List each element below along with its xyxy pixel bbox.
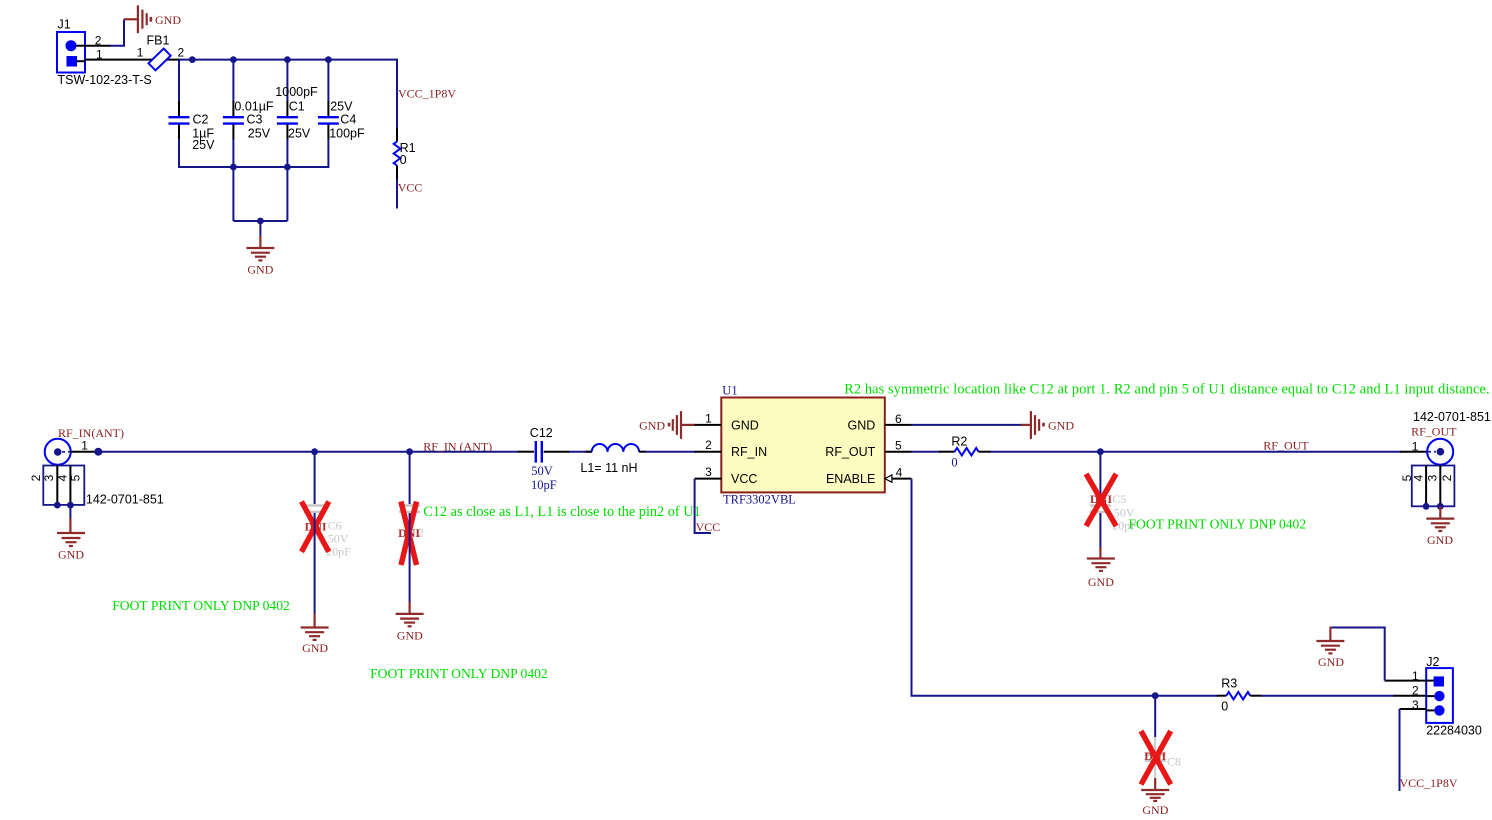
note: R2 placement (green) <box>844 382 1490 398</box>
svg-text:C2: C2 <box>193 113 209 127</box>
svg-text:4: 4 <box>896 465 903 479</box>
wire U1 pin4 ENABLE down and right <box>912 479 1218 696</box>
svg-text:GND: GND <box>1427 533 1453 547</box>
ground (earth) below C8 <box>1141 778 1169 817</box>
junction dot <box>54 502 61 509</box>
svg-text:50V: 50V <box>531 464 553 478</box>
junction dot <box>257 218 264 225</box>
wire C3 branch upper <box>232 60 234 102</box>
ground (earth) below RF_IN connector <box>57 518 85 561</box>
ground (earth) above J2 <box>1316 627 1344 669</box>
capacitor C3 <box>223 100 274 141</box>
junction dot <box>311 448 318 455</box>
node RF_OUT (connector) <box>1411 425 1457 439</box>
svg-text:2: 2 <box>705 438 712 452</box>
wire junction to RF_OUT connector <box>1100 451 1401 453</box>
note: foot print only (green, left) <box>112 598 290 613</box>
svg-text:TSW-102-23-T-S: TSW-102-23-T-S <box>58 73 152 87</box>
svg-text:U1: U1 <box>722 384 737 398</box>
resistor R3 <box>1217 677 1262 714</box>
coax connector RF_OUT <box>1427 439 1453 465</box>
svg-text:L1= 11 nH: L1= 11 nH <box>580 461 637 475</box>
capacitor DNP (greyed, near C12) <box>399 506 424 540</box>
svg-text:C3: C3 <box>247 113 263 127</box>
svg-text:C1: C1 <box>289 100 305 114</box>
svg-text:RF_OUT: RF_OUT <box>825 445 875 459</box>
capacitor C8 (DNP, greyed) <box>1145 737 1181 779</box>
wire C?2 branch upper <box>409 452 411 504</box>
pin 2 lead of J1 <box>85 45 111 47</box>
wire U1 pin6 to GND <box>912 424 1022 426</box>
junction dot <box>284 56 291 63</box>
junction dot <box>284 164 291 171</box>
node VCC <box>398 181 423 195</box>
svg-text:C8: C8 <box>1167 754 1181 768</box>
power ground GND (top, sideways) <box>124 5 181 33</box>
node VCC at U1 pin3 <box>696 520 721 534</box>
junction dot <box>1097 448 1104 455</box>
pin numbers J2 <box>1412 669 1419 712</box>
junction dot <box>325 56 332 63</box>
U1 pin 2 <box>695 438 722 452</box>
svg-text:0: 0 <box>400 153 407 167</box>
wire C1 branch lower <box>286 139 288 221</box>
svg-text:GND: GND <box>58 547 84 561</box>
connector J2 <box>1426 655 1482 738</box>
svg-text:142-0701-851: 142-0701-851 <box>86 493 164 507</box>
svg-text:1: 1 <box>1412 439 1419 453</box>
svg-text:3: 3 <box>1426 474 1440 481</box>
capacitor C5 (DNP, greyed) <box>1090 492 1137 533</box>
svg-text:GND: GND <box>1142 803 1168 817</box>
svg-text:GND: GND <box>1318 655 1344 669</box>
svg-text:RF_OUT: RF_OUT <box>1263 438 1309 452</box>
svg-text:GND: GND <box>1048 419 1074 433</box>
node RF_OUT label <box>1263 438 1309 452</box>
junction dot <box>189 56 196 63</box>
svg-text:VCC: VCC <box>731 472 757 486</box>
ground (earth) below C?2 <box>396 602 424 643</box>
junction dot <box>1423 503 1430 510</box>
wire: RF input net <box>97 451 519 453</box>
wire: top power bus <box>179 59 397 61</box>
pin 1 number of J1 <box>96 48 103 62</box>
node VCC_1P8V (J2) <box>1400 776 1458 790</box>
ground (earth) below C5 <box>1087 547 1115 589</box>
svg-text:25V: 25V <box>330 100 353 114</box>
inductor L1 <box>580 444 646 475</box>
svg-text:2: 2 <box>29 474 43 481</box>
IC U1 TRF3302VBL <box>721 384 885 507</box>
svg-text:C6: C6 <box>328 518 342 532</box>
wire C5 branch lower <box>1099 513 1101 548</box>
pin 1 number <box>1412 439 1419 453</box>
power ground GND right of U1 (sideways) <box>1021 411 1075 439</box>
wire C4 branch lower <box>327 139 329 168</box>
svg-text:TRF3302VBL: TRF3302VBL <box>723 492 796 506</box>
svg-text:GND: GND <box>731 418 759 432</box>
part number 142-0701-851 <box>86 493 164 507</box>
node RF_IN(ANT) label <box>58 426 124 440</box>
svg-text:GND: GND <box>848 418 876 432</box>
pin 2 lead of J2 <box>1394 695 1427 697</box>
capacitor C6 (DNP, greyed) <box>304 506 351 559</box>
wire: lower gnd bus <box>233 220 287 222</box>
U1 pin 3 <box>695 465 722 479</box>
node RF_IN (ANT) label <box>423 440 492 454</box>
svg-text:0.01µF: 0.01µF <box>234 100 274 114</box>
svg-text:4: 4 <box>1412 474 1426 481</box>
wire J2 pin1 to GND <box>1330 628 1384 681</box>
wire stem to ground <box>259 221 261 237</box>
svg-text:FB1: FB1 <box>147 34 170 48</box>
svg-text:GND: GND <box>397 629 423 643</box>
svg-text:0: 0 <box>1221 700 1228 714</box>
wire C8 branch upper <box>1154 696 1156 738</box>
svg-text:RF_IN (ANT): RF_IN (ANT) <box>423 440 492 454</box>
svg-text:2: 2 <box>1440 474 1454 481</box>
pin 1 lead <box>71 451 99 453</box>
svg-text:VCC: VCC <box>398 181 423 195</box>
svg-text:C12 as close as L1, L1 is clos: C12 as close as L1, L1 is close to the p… <box>423 504 701 520</box>
svg-text:J1: J1 <box>58 18 71 32</box>
wire R2 to junction <box>990 451 1100 453</box>
svg-text:5: 5 <box>895 439 902 453</box>
svg-text:C12: C12 <box>530 426 553 440</box>
pin 1 lead of J1 to FB1 <box>85 59 180 61</box>
junction dot <box>94 448 102 456</box>
svg-text:1: 1 <box>137 46 144 60</box>
capacitor C4 <box>318 100 365 141</box>
capacitor C12 (series) <box>518 426 570 492</box>
coax connector P1 RF_IN <box>45 439 71 465</box>
pin 1 number <box>81 438 88 452</box>
U1 pin 5 <box>885 439 912 453</box>
DNI marker C8 <box>1141 731 1171 784</box>
svg-text:25V: 25V <box>288 127 311 141</box>
svg-text:1000pF: 1000pF <box>275 85 318 99</box>
U1 pin 4 ENABLE with input triangle <box>885 465 912 482</box>
junction dot <box>230 56 237 63</box>
svg-text:C4: C4 <box>340 113 356 127</box>
coax shield pin box <box>29 466 84 505</box>
capacitor C2 <box>169 101 216 152</box>
svg-text:GND: GND <box>155 13 181 27</box>
wire C2 branch lower <box>178 139 180 168</box>
svg-text:2: 2 <box>178 46 185 60</box>
wire C4 branch upper <box>327 60 329 102</box>
wire C6 branch lower <box>314 513 316 615</box>
svg-text:25V: 25V <box>248 127 271 141</box>
svg-text:0: 0 <box>951 456 957 470</box>
pin 1 lead of J2 <box>1385 680 1427 682</box>
svg-text:5: 5 <box>69 474 83 481</box>
wire C6 branch upper <box>314 452 316 504</box>
svg-text:50V: 50V <box>328 532 349 546</box>
U1 pin 1 <box>695 412 722 426</box>
junction dot <box>406 448 413 455</box>
junction dot <box>1152 692 1159 699</box>
capacitor C1 <box>275 85 318 141</box>
ground (earth) below capacitor bank <box>246 236 274 277</box>
wire: capacitor bottom bus <box>179 166 328 168</box>
svg-text:VCC: VCC <box>696 520 721 534</box>
wire L1 to U1 pin2 <box>645 451 696 453</box>
coax shield pin box (right) <box>1400 466 1455 507</box>
resistor R1 <box>394 128 416 181</box>
wire U1 pin3 to VCC <box>695 479 711 533</box>
DNI marker C5 <box>1086 474 1116 526</box>
resistor R2 <box>939 434 991 469</box>
svg-text:3: 3 <box>705 465 712 479</box>
svg-text:GND: GND <box>247 263 273 277</box>
connector J1 <box>57 18 152 88</box>
svg-text:J2: J2 <box>1426 655 1439 669</box>
wire between C12 and L1 <box>569 451 592 453</box>
wire below R1 <box>396 180 398 209</box>
wire C5 branch upper <box>1099 452 1101 504</box>
ferrite bead FB1 <box>137 34 185 71</box>
ground (earth) below RF_OUT connector <box>1426 506 1454 547</box>
wire R3 to J2 pin2 <box>1261 695 1395 697</box>
svg-text:GND: GND <box>639 419 665 433</box>
svg-text:3: 3 <box>42 474 56 481</box>
svg-text:10pF: 10pF <box>531 478 557 492</box>
wire C?2 branch lower <box>409 513 411 603</box>
DNI marker C6 <box>302 502 329 552</box>
svg-text:RF_IN: RF_IN <box>731 445 767 459</box>
wire C2 branch upper <box>178 60 180 102</box>
wire to gnd <box>69 505 71 519</box>
junction dot <box>67 502 74 509</box>
svg-text:FOOT PRINT ONLY DNP 0402: FOOT PRINT ONLY DNP 0402 <box>1129 517 1307 532</box>
note: foot print only (green, right) <box>1129 517 1307 532</box>
svg-text:VCC_1P8V: VCC_1P8V <box>398 87 456 101</box>
svg-text:25V: 25V <box>192 138 215 152</box>
wire C3 branch lower <box>232 139 234 221</box>
note: C12 placement (green) <box>423 504 701 520</box>
wire from J1 pin2 to GND <box>110 19 124 45</box>
svg-text:100pF: 100pF <box>329 127 365 141</box>
junction dot <box>230 164 237 171</box>
junction dot <box>1437 503 1444 510</box>
svg-text:R2: R2 <box>951 434 967 448</box>
part number 142-0701-851 (right) <box>1413 410 1491 424</box>
U1 pin 6 <box>885 412 912 426</box>
svg-text:RF_IN(ANT): RF_IN(ANT) <box>58 426 124 440</box>
ground (earth) below C6 <box>301 614 329 655</box>
svg-text:GND: GND <box>302 641 328 655</box>
svg-text:1: 1 <box>81 438 88 452</box>
wire from bus to R1 <box>396 60 397 129</box>
svg-text:R2 has symmetric location like: R2 has symmetric location like C12 at po… <box>844 382 1490 398</box>
svg-text:22284030: 22284030 <box>1426 724 1482 738</box>
svg-text:VCC_1P8V: VCC_1P8V <box>1400 776 1458 790</box>
svg-text:ENABLE: ENABLE <box>826 472 875 486</box>
wire U1 pin5 to R2 <box>912 451 941 453</box>
power ground GND at U1 pin 1 (sideways) <box>639 411 696 439</box>
svg-text:GND: GND <box>1088 575 1114 589</box>
svg-text:4: 4 <box>55 474 69 481</box>
svg-text:FOOT PRINT ONLY DNP 0402: FOOT PRINT ONLY DNP 0402 <box>370 666 548 681</box>
svg-text:2: 2 <box>1412 684 1419 698</box>
pin 2 number of J1 <box>95 34 102 48</box>
svg-text:142-0701-851: 142-0701-851 <box>1413 410 1491 424</box>
svg-text:RF_OUT: RF_OUT <box>1411 425 1457 439</box>
svg-text:1: 1 <box>705 412 712 426</box>
note: foot print only (green, middle) <box>370 666 548 681</box>
svg-text:FOOT PRINT ONLY DNP 0402: FOOT PRINT ONLY DNP 0402 <box>112 598 290 613</box>
wire J2 pin3 to VCC_1P8V <box>1399 709 1401 791</box>
svg-text:20pF: 20pF <box>326 545 351 559</box>
svg-text:R3: R3 <box>1221 677 1237 691</box>
pin 1 lead of RF_OUT connector <box>1400 451 1427 453</box>
svg-text:C5: C5 <box>1112 492 1126 506</box>
wire C1 branch upper <box>286 60 288 102</box>
pin 3 lead of J2 <box>1400 708 1427 710</box>
DNI marker <box>398 502 420 566</box>
node VCC_1P8V <box>398 87 456 101</box>
